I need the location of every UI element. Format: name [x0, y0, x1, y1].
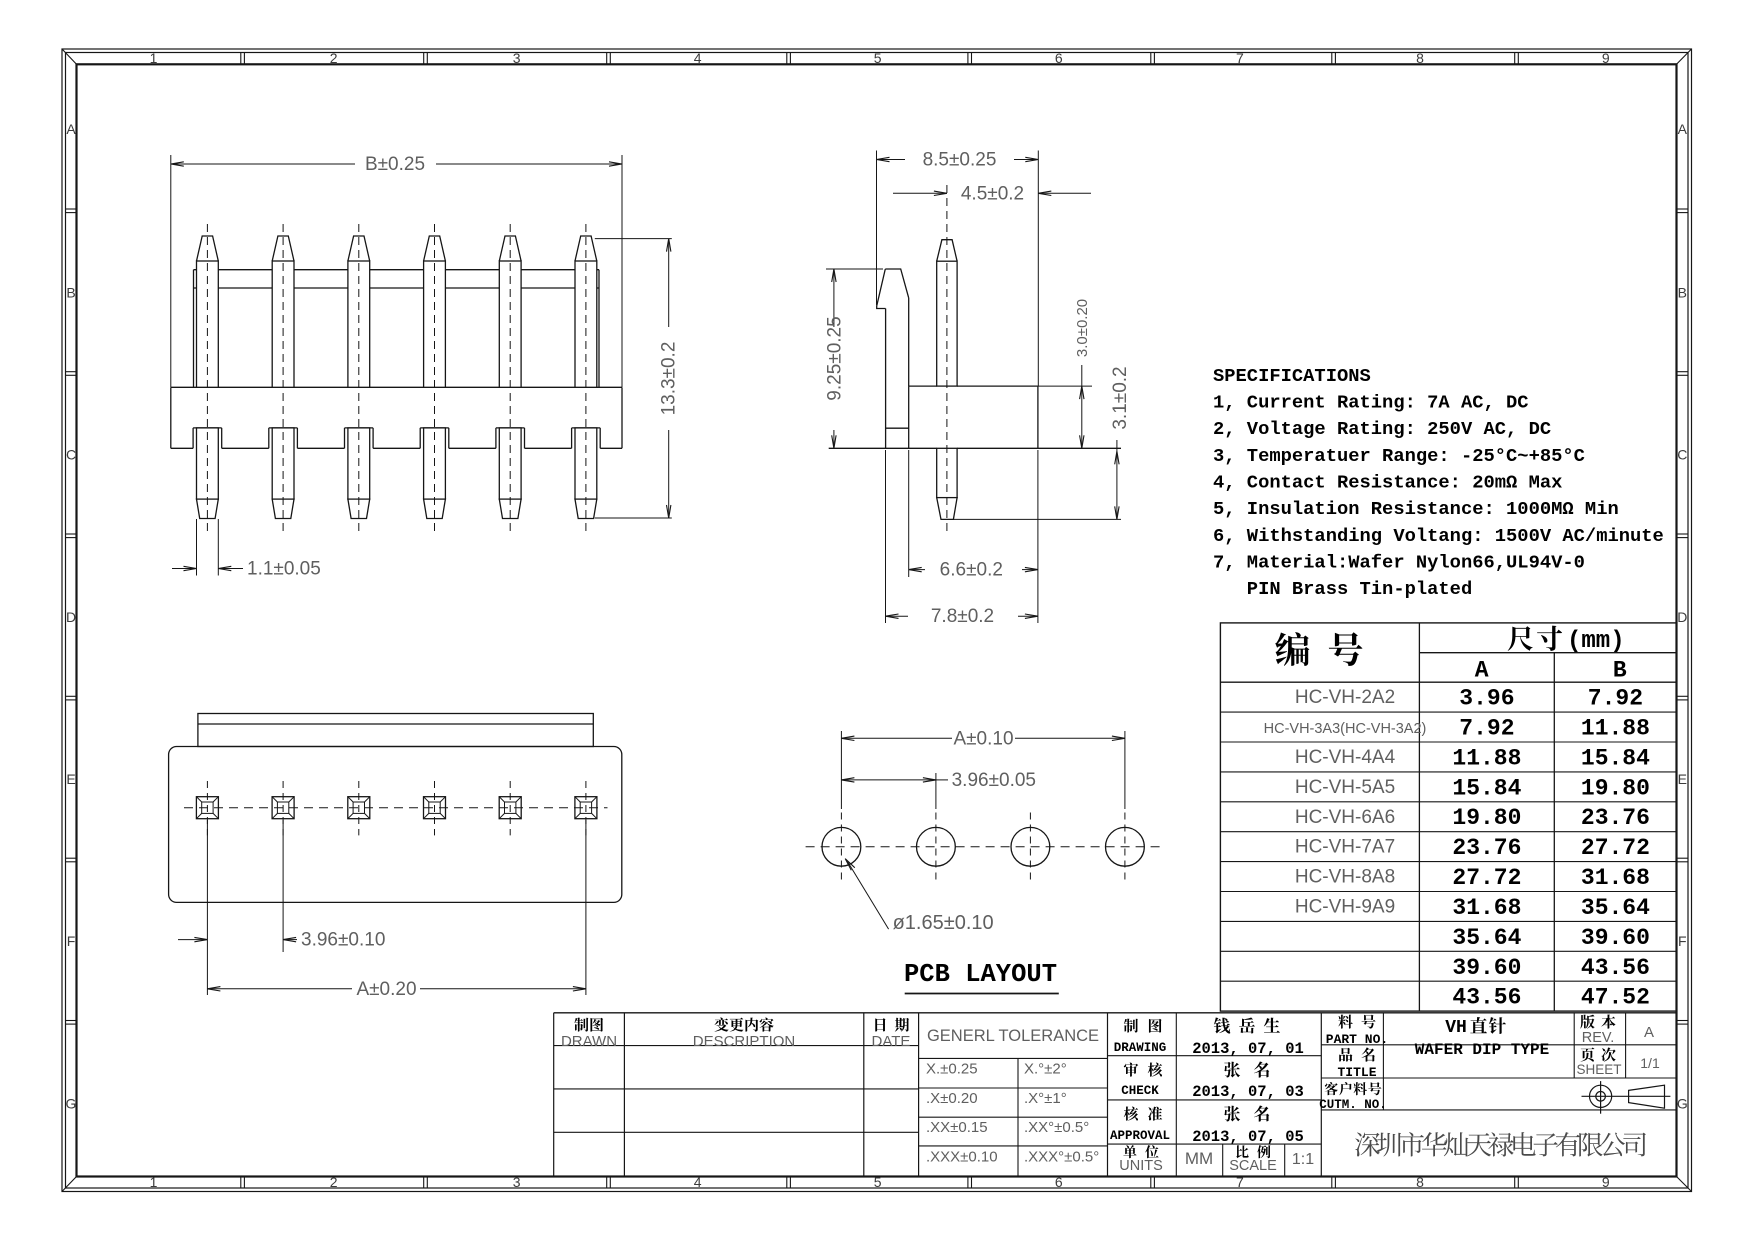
svg-text:11.88: 11.88: [1581, 716, 1650, 742]
pin 6 centerline: [585, 224, 587, 534]
svg-text:D: D: [1677, 609, 1687, 625]
top cap: [198, 714, 593, 747]
svg-text:9: 9: [1602, 50, 1610, 66]
svg-text:7.8±0.2: 7.8±0.2: [931, 606, 994, 627]
center dashed line: [184, 807, 608, 809]
svg-text:2: 2: [330, 50, 338, 66]
svg-text:6: 6: [1055, 1174, 1063, 1190]
svg-text:DRAWING: DRAWING: [1114, 1041, 1167, 1055]
base bottom reference line: [829, 447, 937, 449]
svg-text:3.1±0.2: 3.1±0.2: [1110, 366, 1131, 429]
svg-text:SPECIFICATIONS: SPECIFICATIONS: [1213, 365, 1371, 387]
svg-text:8.5±0.25: 8.5±0.25: [923, 150, 997, 171]
square pin 1 front view: [196, 797, 218, 819]
dimension 6.6±0.2: [908, 450, 910, 577]
square pin 2 front view: [272, 797, 294, 819]
svg-text:WAFER DIP TYPE: WAFER DIP TYPE: [1415, 1041, 1549, 1059]
zone ticks left/right: [66, 208, 77, 210]
dimension 1.1±0.05: [196, 519, 198, 576]
dimension 8.5±0.25: [876, 151, 878, 306]
pin socket notch at x=586: [572, 427, 601, 429]
svg-text:C: C: [66, 446, 76, 462]
svg-text:2013, 07, 05: 2013, 07, 05: [1192, 1128, 1304, 1146]
svg-text:1/1: 1/1: [1640, 1055, 1660, 1071]
svg-text:HC-VH-7A7: HC-VH-7A7: [1295, 837, 1395, 858]
pin 4 centerline: [434, 224, 436, 534]
svg-text:23.76: 23.76: [1452, 835, 1521, 861]
svg-text:27.72: 27.72: [1581, 835, 1650, 861]
square pin 6 front view: [575, 797, 597, 819]
pin 5 lower (side view): [499, 428, 521, 499]
revision table headers: [574, 1018, 603, 1032]
pin socket notch at x=359: [345, 427, 374, 429]
dimension 3.1±0.2: [954, 518, 1121, 520]
svg-text:15.84: 15.84: [1581, 746, 1650, 772]
svg-text:8: 8: [1416, 1174, 1424, 1190]
svg-text:1, Current Rating: 7A AC, DC: 1, Current Rating: 7A AC, DC: [1213, 392, 1529, 414]
main body rounded: [169, 747, 622, 903]
svg-text:.XXX°±0.5°: .XXX°±0.5°: [1024, 1149, 1099, 1166]
svg-text:SCALE: SCALE: [1229, 1158, 1277, 1174]
svg-text:C: C: [1677, 446, 1687, 462]
svg-text:UNITS: UNITS: [1119, 1158, 1163, 1174]
svg-text:1: 1: [150, 50, 158, 66]
svg-text:TITLE: TITLE: [1337, 1065, 1376, 1080]
svg-text:PCB LAYOUT: PCB LAYOUT: [904, 960, 1057, 989]
dimension 3.96±0.05: [935, 773, 937, 809]
svg-text:39.60: 39.60: [1581, 925, 1650, 951]
svg-text:F: F: [67, 933, 76, 949]
svg-text:A±0.10: A±0.10: [953, 728, 1013, 749]
svg-text:D: D: [66, 609, 76, 625]
svg-text:.XXX±0.10: .XXX±0.10: [926, 1149, 998, 1166]
svg-text:A: A: [1644, 1024, 1654, 1041]
zone ticks top/bottom: [240, 53, 242, 65]
pin 1 lower (side view): [197, 428, 219, 499]
PCB hole 3: [1011, 827, 1050, 866]
svg-text:X.°±2°: X.°±2°: [1024, 1061, 1067, 1078]
pin socket notch at x=207: [193, 427, 222, 429]
svg-text:PART NO.: PART NO.: [1326, 1032, 1388, 1047]
svg-text:1:1: 1:1: [1292, 1151, 1314, 1168]
dimension 3.0±0.20: [1038, 385, 1092, 387]
svg-text:REV.: REV.: [1582, 1030, 1615, 1046]
table header 尺寸(mm): [1508, 626, 1562, 651]
svg-text:9: 9: [1602, 1174, 1610, 1190]
svg-text:31.68: 31.68: [1452, 895, 1521, 921]
svg-text:7: 7: [1236, 50, 1244, 66]
pin 3 lower (side view): [348, 428, 370, 499]
svg-text:7: 7: [1236, 1174, 1244, 1190]
svg-text:39.60: 39.60: [1452, 955, 1521, 981]
svg-text:G: G: [66, 1096, 77, 1112]
svg-text:19.80: 19.80: [1452, 805, 1521, 831]
svg-text:7.92: 7.92: [1459, 716, 1514, 742]
svg-text:X.±0.25: X.±0.25: [926, 1061, 978, 1078]
svg-text:A: A: [1678, 121, 1688, 137]
svg-text:G: G: [1677, 1096, 1688, 1112]
svg-text:VH: VH: [1445, 1018, 1467, 1038]
pin centerline: [946, 185, 948, 533]
svg-text:7.92: 7.92: [1588, 686, 1643, 712]
pin 3 upper (side view): [348, 236, 370, 261]
svg-text:E: E: [66, 771, 75, 787]
svg-text:B: B: [66, 285, 75, 301]
svg-text:3.96±0.05: 3.96±0.05: [952, 770, 1036, 791]
svg-text:13.3±0.2: 13.3±0.2: [659, 342, 680, 416]
pin 4 lower (side view): [424, 428, 446, 499]
svg-text:47.52: 47.52: [1581, 985, 1650, 1011]
part-no / title / cutm labels: [1338, 1015, 1375, 1029]
svg-text:CHECK: CHECK: [1121, 1084, 1159, 1098]
svg-text:DESCRIPTION: DESCRIPTION: [693, 1033, 796, 1050]
svg-text:4: 4: [694, 1174, 702, 1190]
svg-text:HC-VH-2A2: HC-VH-2A2: [1295, 687, 1395, 708]
svg-text:B±0.25: B±0.25: [365, 154, 425, 175]
svg-text:A: A: [1475, 658, 1489, 684]
svg-text:35.64: 35.64: [1581, 895, 1650, 921]
pin 1 upper (side view): [197, 236, 219, 261]
svg-text:43.56: 43.56: [1452, 985, 1521, 1011]
svg-text:HC-VH-3A3(HC-VH-3A2): HC-VH-3A3(HC-VH-3A2): [1264, 721, 1427, 737]
svg-text:1.1±0.05: 1.1±0.05: [247, 559, 321, 580]
svg-text:(mm): (mm): [1567, 628, 1625, 655]
svg-text:11.88: 11.88: [1452, 746, 1521, 772]
pin profile upper: [937, 240, 957, 262]
svg-text:DRAWN: DRAWN: [561, 1033, 617, 1050]
svg-text:A±0.20: A±0.20: [356, 979, 416, 1000]
dimension 9.25±0.25: [826, 268, 883, 270]
pin profile lower: [937, 448, 957, 497]
svg-text:PIN Brass Tin-plated: PIN Brass Tin-plated: [1213, 578, 1472, 600]
PCB hole 2: [917, 827, 956, 866]
latch wall: [885, 269, 908, 298]
svg-text:3.96: 3.96: [1459, 686, 1514, 712]
pin socket notch at x=510: [496, 427, 525, 429]
svg-text:3, Temperatuer Range: -25°C~+8: 3, Temperatuer Range: -25°C~+85°C: [1213, 445, 1585, 467]
PCB hole 4: [1106, 827, 1145, 866]
pin socket notch at x=434: [420, 427, 449, 429]
svg-text:15.84: 15.84: [1452, 775, 1521, 801]
company name: [1355, 1132, 1646, 1156]
part number table: [1220, 623, 1676, 1011]
dimension A±0.10: [840, 731, 842, 809]
svg-text:1: 1: [150, 1174, 158, 1190]
svg-text:E: E: [1678, 771, 1687, 787]
pin 2 lower (side view): [272, 428, 294, 499]
svg-text:8: 8: [1416, 50, 1424, 66]
svg-text:3: 3: [513, 50, 521, 66]
svg-text:MM: MM: [1185, 1149, 1213, 1168]
svg-text:HC-VH-5A5: HC-VH-5A5: [1295, 777, 1395, 798]
svg-text:B: B: [1678, 285, 1687, 301]
svg-text:31.68: 31.68: [1581, 865, 1650, 891]
svg-text:.X±0.20: .X±0.20: [926, 1090, 978, 1107]
svg-text:6.6±0.2: 6.6±0.2: [940, 560, 1003, 581]
base bottom edge with notches: [171, 447, 193, 449]
housing body profile: [909, 385, 937, 387]
svg-text:23.76: 23.76: [1581, 805, 1650, 831]
svg-text:3.0±0.20: 3.0±0.20: [1074, 299, 1091, 357]
svg-text:9.25±0.25: 9.25±0.25: [824, 316, 845, 400]
dimension B±0.25: [170, 155, 172, 387]
table header 编号: [1275, 632, 1362, 666]
pin 1 centerline: [206, 224, 208, 534]
housing upper box: [194, 269, 600, 271]
square pin 5 front view: [499, 797, 521, 819]
svg-text:2: 2: [330, 1174, 338, 1190]
svg-text:3.96±0.10: 3.96±0.10: [301, 930, 385, 951]
dimension 7.8±0.2: [885, 450, 887, 623]
svg-text:3: 3: [513, 1174, 521, 1190]
pin 2 centerline: [282, 224, 284, 534]
svg-text:4, Contact Resistance: 20mΩ Ma: 4, Contact Resistance: 20mΩ Max: [1213, 472, 1562, 494]
dimension A±0.20: [585, 820, 587, 995]
pin 6 lower (side view): [575, 428, 597, 499]
pin 5 upper (side view): [499, 236, 521, 261]
dimension 3.96±0.10: [206, 820, 208, 995]
svg-text:HC-VH-6A6: HC-VH-6A6: [1295, 807, 1395, 828]
view 4: PCB layout: [806, 846, 1164, 848]
sign-off rows: [1124, 1019, 1162, 1033]
svg-text:F: F: [1678, 933, 1687, 949]
svg-text:2013, 07, 01: 2013, 07, 01: [1192, 1040, 1304, 1058]
svg-text:6, Withstanding Voltang: 1500V: 6, Withstanding Voltang: 1500V AC/minute: [1213, 525, 1664, 547]
svg-text:GENERL TOLERANCE: GENERL TOLERANCE: [927, 1027, 1099, 1045]
svg-text:5: 5: [874, 50, 882, 66]
pin 4 upper (side view): [424, 236, 446, 261]
hole diameter callout: [848, 862, 889, 930]
square pin 4 front view: [424, 797, 446, 819]
svg-text:6: 6: [1055, 50, 1063, 66]
pin socket notch at x=283: [269, 427, 298, 429]
svg-text:CUTM. NO.: CUTM. NO.: [1319, 1098, 1387, 1112]
svg-text:5: 5: [874, 1174, 882, 1190]
svg-text:HC-VH-9A9: HC-VH-9A9: [1295, 897, 1395, 918]
svg-text:2013, 07, 03: 2013, 07, 03: [1192, 1083, 1304, 1101]
square pin 3 front view: [348, 797, 370, 819]
rev / sheet: [1580, 1015, 1615, 1029]
pin 2 upper (side view): [272, 236, 294, 261]
svg-text:4: 4: [694, 50, 702, 66]
svg-text:4.5±0.2: 4.5±0.2: [961, 183, 1024, 204]
svg-text:APPROVAL: APPROVAL: [1110, 1129, 1170, 1143]
corner diagonals: [62, 49, 77, 64]
svg-text:.XX±0.15: .XX±0.15: [926, 1119, 988, 1136]
svg-text:HC-VH-4A4: HC-VH-4A4: [1295, 747, 1396, 768]
dimension 13.3±0.2: [595, 238, 672, 240]
first angle projection symbol: [1590, 1085, 1612, 1107]
svg-text:ø1.65±0.10: ø1.65±0.10: [893, 912, 994, 934]
svg-text:43.56: 43.56: [1581, 955, 1650, 981]
svg-text:A: A: [66, 121, 76, 137]
svg-text:HC-VH-8A8: HC-VH-8A8: [1295, 867, 1395, 888]
svg-text:B: B: [1613, 658, 1627, 684]
svg-text:27.72: 27.72: [1452, 865, 1521, 891]
pin 3 centerline: [358, 224, 360, 534]
pin 5 centerline: [509, 224, 511, 534]
svg-text:2, Voltage Rating: 250V AC, DC: 2, Voltage Rating: 250V AC, DC: [1213, 418, 1551, 440]
svg-text:7, Material:Wafer Nylon66,UL94: 7, Material:Wafer Nylon66,UL94V-0: [1213, 552, 1585, 574]
svg-text:19.80: 19.80: [1581, 775, 1650, 801]
base box: [171, 386, 622, 388]
PCB hole 1: [822, 827, 861, 866]
svg-text:.X°±1°: .X°±1°: [1024, 1090, 1067, 1107]
dimension 4.5±0.2: [893, 192, 947, 194]
svg-text:.XX°±0.5°: .XX°±0.5°: [1024, 1119, 1089, 1136]
svg-text:DATE: DATE: [872, 1033, 911, 1050]
svg-text:5, Insulation Resistance: 1000: 5, Insulation Resistance: 1000MΩ Min: [1213, 498, 1619, 520]
pin 6 upper (side view): [575, 236, 597, 261]
title block grid: [554, 1012, 1677, 1014]
svg-text:35.64: 35.64: [1452, 925, 1521, 951]
svg-text:SHEET: SHEET: [1576, 1062, 1621, 1077]
